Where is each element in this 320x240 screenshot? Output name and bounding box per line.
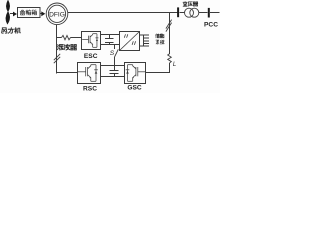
svg-text:RSC: RSC [83, 85, 97, 92]
svg-text:PCC: PCC [204, 21, 218, 28]
svg-text:L: L [173, 62, 176, 68]
svg-text:GSC: GSC [127, 85, 142, 92]
svg-text:ESC: ESC [84, 53, 98, 60]
svg-text:DFIG: DFIG [49, 11, 65, 18]
svg-text:S: S [110, 50, 115, 57]
